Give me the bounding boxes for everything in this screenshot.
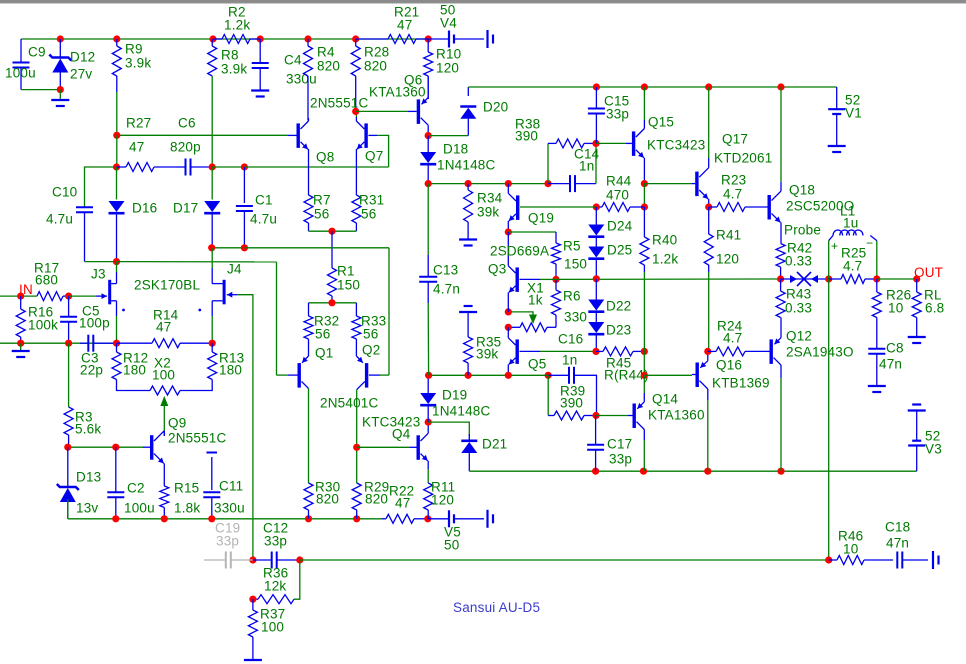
wire Q4 base — [357, 446, 410, 448]
wire to R5 — [508, 231, 556, 233]
transistor Q16 — [692, 351, 708, 471]
svg-text:D18: D18 — [443, 142, 468, 157]
svg-text:J4: J4 — [227, 262, 242, 277]
svg-text:330u: 330u — [286, 72, 317, 87]
label R13 — [219, 351, 244, 366]
value R22 — [395, 496, 410, 511]
value R45 — [604, 368, 649, 383]
resistor R36 — [253, 595, 294, 604]
svg-text:10: 10 — [843, 542, 858, 557]
wire C13 top — [427, 184, 429, 255]
label R40 — [652, 233, 677, 248]
ground V3 top — [908, 405, 926, 411]
wire R40 down — [643, 272, 645, 351]
svg-text:V4: V4 — [440, 16, 457, 31]
ground V5 — [488, 510, 494, 528]
wire out row left — [556, 278, 781, 280]
transistor Q3 — [508, 232, 540, 312]
wire D24 top — [595, 207, 597, 225]
wire R41 down — [708, 272, 710, 351]
value C17 — [609, 452, 632, 467]
junction — [64, 444, 71, 451]
label R22 — [389, 484, 414, 499]
label R45 — [606, 356, 631, 371]
value C19 — [216, 534, 239, 549]
svg-text:390: 390 — [560, 396, 583, 411]
wire R38 left — [547, 143, 549, 183]
jfet J3 — [96, 262, 117, 344]
value R8 — [221, 62, 247, 77]
label J4 — [227, 262, 242, 277]
svg-text:2SK170BL: 2SK170BL — [134, 278, 200, 293]
svg-text:KTC3423: KTC3423 — [362, 415, 420, 430]
resistor R34 — [464, 184, 473, 232]
resistor R16 — [16, 296, 25, 343]
svg-text:Q9: Q9 — [168, 416, 186, 431]
svg-text:Probe: Probe — [784, 223, 821, 238]
wire to Q6 base — [356, 110, 408, 112]
junction — [113, 163, 120, 170]
svg-text:2N5401C: 2N5401C — [320, 396, 378, 411]
svg-text:D21: D21 — [482, 437, 507, 452]
svg-text:R10: R10 — [436, 47, 461, 62]
wire Q5 base row — [540, 350, 596, 352]
junction — [57, 35, 64, 42]
label D19 — [442, 388, 467, 403]
wire R16 ground lead — [20, 343, 22, 350]
wire neg rail right — [469, 470, 916, 472]
wire X2 to R13 — [180, 380, 212, 391]
svg-text:27v: 27v — [70, 67, 92, 82]
resistor R12 — [112, 343, 121, 379]
wire D12 to ground — [59, 90, 61, 99]
battery V5 — [428, 510, 454, 527]
capacitor C11 minus mark — [207, 453, 218, 491]
svg-text:3.9k: 3.9k — [221, 62, 247, 77]
value C4 — [286, 72, 317, 87]
svg-text:1k: 1k — [528, 293, 543, 308]
capacitor C3 — [80, 335, 117, 352]
diode D21 — [461, 434, 477, 453]
junction — [592, 468, 599, 475]
resistor R7 — [304, 168, 313, 231]
svg-text:R5: R5 — [563, 239, 581, 254]
svg-text:R41: R41 — [716, 228, 741, 243]
wire C10 bottom — [85, 261, 117, 263]
svg-text:R44: R44 — [606, 174, 632, 189]
svg-text:KTA1360: KTA1360 — [648, 408, 705, 423]
svg-text:100k: 100k — [28, 318, 58, 333]
label Q6 type — [369, 85, 426, 100]
resistor R30 — [304, 483, 313, 519]
junction — [161, 515, 168, 522]
svg-text:R23: R23 — [721, 173, 746, 188]
label R29 — [364, 480, 389, 495]
value R32 — [315, 327, 330, 342]
transistor Q14 — [628, 375, 644, 471]
svg-text:680: 680 — [35, 273, 58, 288]
label Q15 type — [647, 138, 705, 153]
battery V3 — [908, 441, 925, 472]
label D23 — [606, 323, 631, 338]
junction — [705, 203, 712, 210]
wire down to Q1 base — [276, 262, 278, 375]
label V3 — [925, 429, 942, 457]
svg-text:470: 470 — [606, 188, 629, 203]
svg-text:2N5551C: 2N5551C — [310, 96, 368, 111]
wire R39 left — [547, 375, 549, 415]
resistor R2 — [213, 35, 260, 44]
svg-text:R27: R27 — [126, 116, 151, 131]
svg-text:Q17: Q17 — [722, 132, 748, 147]
svg-text:Sansui AU-D5: Sansui AU-D5 — [453, 600, 540, 615]
value L1 — [843, 216, 858, 231]
transistor Q8 — [288, 118, 309, 153]
value C12 — [264, 534, 287, 549]
junction — [704, 348, 711, 355]
wire top rail — [21, 38, 428, 40]
junction — [913, 275, 920, 282]
value C11 — [214, 501, 245, 516]
wire C14 right up — [595, 143, 597, 183]
label D18 — [443, 142, 468, 157]
resistor R14 — [117, 339, 213, 348]
junction — [65, 293, 72, 300]
resistor R9 — [112, 39, 121, 92]
label R6 — [563, 289, 581, 304]
svg-text:0.33: 0.33 — [785, 254, 812, 269]
junction — [545, 372, 552, 379]
label R41 — [716, 228, 741, 243]
svg-text:D24: D24 — [607, 219, 633, 234]
svg-text:KTA1360: KTA1360 — [369, 85, 426, 100]
value C10 — [46, 212, 73, 227]
zener D13 — [57, 447, 79, 519]
resistor R26 — [872, 279, 881, 348]
value C8 — [879, 357, 902, 372]
wire Q19 base — [520, 206, 596, 208]
wire Q15e down — [643, 184, 645, 207]
resistor R4 — [304, 39, 313, 121]
wire R34 ground lead — [467, 232, 469, 239]
value R42 — [785, 254, 812, 269]
label J3 — [91, 267, 106, 282]
value R21 — [397, 18, 412, 33]
value C5 — [79, 316, 110, 331]
svg-text:2SD669A: 2SD669A — [490, 244, 549, 259]
value C2 — [124, 501, 155, 516]
value D13 — [76, 501, 98, 516]
label R21 — [394, 5, 419, 20]
svg-text:+: + — [831, 239, 838, 253]
label C2 — [127, 481, 145, 496]
label Q12 type — [786, 345, 854, 360]
wire C9 bottom — [21, 89, 60, 91]
ground below R16 — [12, 351, 30, 357]
capacitor C17 — [587, 416, 604, 472]
diode D22 — [588, 300, 604, 312]
label C19 — [215, 521, 240, 536]
resistor R6 — [552, 279, 561, 327]
label R33 — [361, 314, 386, 329]
junction — [209, 163, 216, 170]
svg-text:47: 47 — [397, 18, 412, 33]
label C12 — [263, 521, 288, 536]
label R15 — [174, 481, 199, 496]
value R1 — [337, 278, 360, 293]
label R32 — [314, 314, 339, 329]
svg-text:56: 56 — [361, 207, 376, 222]
junction — [825, 556, 832, 563]
svg-text:Q19: Q19 — [528, 211, 554, 226]
pot X1 track — [508, 323, 547, 332]
label Q2 — [362, 343, 380, 358]
svg-text:4.7n: 4.7n — [433, 282, 460, 297]
svg-text:1n: 1n — [579, 159, 594, 174]
label Q7 — [365, 149, 383, 164]
junction — [353, 444, 360, 451]
capacitor C12 — [253, 552, 300, 569]
capacitor C4 — [252, 39, 269, 90]
label R5 — [563, 239, 581, 254]
junction — [777, 83, 784, 90]
svg-text:V3: V3 — [925, 442, 942, 457]
ground below D12 — [51, 100, 69, 106]
wire D21 bottom — [468, 453, 470, 471]
junction — [424, 515, 431, 522]
junction — [425, 372, 432, 379]
value R33 — [363, 327, 378, 342]
svg-text:47: 47 — [395, 496, 410, 511]
label R36 — [263, 566, 288, 581]
svg-text:1n: 1n — [562, 353, 577, 368]
svg-text:100u: 100u — [124, 501, 155, 516]
wire Q7 base loop — [377, 135, 389, 167]
label Q3 type — [490, 244, 549, 259]
value R46 — [843, 542, 858, 557]
label R26 — [886, 288, 911, 303]
label R46 — [838, 529, 863, 544]
svg-text:33p: 33p — [216, 534, 239, 549]
battery V1 — [828, 87, 845, 114]
junction — [328, 228, 335, 235]
svg-text:820: 820 — [316, 492, 339, 507]
value R9 — [125, 56, 151, 71]
svg-text:KTC3423: KTC3423 — [647, 138, 705, 153]
junction — [593, 203, 600, 210]
pot X2 wiper — [160, 396, 168, 436]
wire D17 C1 row — [212, 247, 245, 249]
ground V4 — [488, 30, 494, 48]
wire R3 top — [68, 343, 70, 407]
svg-text:D22: D22 — [606, 299, 631, 314]
svg-text:47n: 47n — [879, 357, 902, 372]
junction — [425, 132, 432, 139]
resistor R1 — [328, 231, 337, 303]
wire V3 mid — [916, 411, 918, 441]
svg-text:Q14: Q14 — [652, 392, 678, 407]
resistor R28 — [351, 39, 360, 111]
value R41 — [716, 252, 739, 267]
svg-text:820p: 820p — [170, 140, 201, 155]
label C14 — [574, 147, 600, 162]
resistor R27 — [117, 163, 178, 172]
svg-text:C1: C1 — [255, 193, 273, 208]
diode D17 — [204, 201, 220, 248]
resistor R3 — [64, 407, 73, 447]
wire D13 bottom — [67, 499, 69, 519]
label R38 — [515, 117, 540, 132]
wire J3 drain row — [117, 261, 277, 263]
value R44 — [606, 188, 629, 203]
wire L1 loop — [829, 241, 877, 279]
transistor Q7 — [356, 117, 377, 153]
label R17 — [34, 261, 59, 276]
capacitor C6 — [177, 159, 212, 176]
label C15 — [604, 94, 629, 109]
wire IN left — [0, 295, 37, 297]
svg-text:50: 50 — [444, 538, 459, 553]
svg-text:J3: J3 — [91, 267, 106, 282]
junction — [352, 35, 359, 42]
resistor R10 — [424, 39, 433, 99]
wire J4 gate feedback — [237, 295, 253, 560]
junction — [113, 340, 120, 347]
ground V1 — [828, 146, 846, 152]
junction — [777, 468, 784, 475]
svg-text:Q3: Q3 — [488, 262, 506, 277]
label R43 — [786, 287, 811, 302]
resistor R38 — [548, 139, 596, 148]
wire C1 top — [243, 167, 245, 203]
pot X2 track — [150, 386, 180, 395]
svg-text:C17: C17 — [607, 437, 632, 452]
resistor R5 — [552, 232, 561, 279]
diode D23 — [588, 322, 604, 351]
wire Q17 base — [644, 183, 692, 185]
resistor R43 — [776, 279, 785, 318]
label D13 — [76, 470, 101, 485]
svg-text:Q8: Q8 — [316, 150, 334, 165]
svg-text:820: 820 — [365, 492, 388, 507]
svg-text:D23: D23 — [606, 323, 631, 338]
value R30 — [316, 492, 339, 507]
wire R35 top lead — [467, 312, 469, 337]
svg-text:Q1: Q1 — [315, 346, 333, 361]
wire down to Q2 base — [388, 248, 390, 375]
junction — [241, 244, 248, 251]
transistor Q1 — [288, 356, 309, 388]
value R14 — [156, 320, 171, 335]
label R2 — [228, 5, 246, 20]
junction — [208, 515, 215, 522]
resistor R41 — [704, 207, 713, 272]
capacitor C10 — [76, 207, 93, 261]
svg-text:100: 100 — [152, 368, 175, 383]
value X1 — [528, 293, 543, 308]
junction — [593, 83, 600, 90]
label Q4 — [392, 427, 411, 442]
svg-text:R31: R31 — [359, 193, 384, 208]
resistor R37 — [248, 599, 257, 659]
junction — [305, 515, 312, 522]
svg-text:39k: 39k — [476, 347, 498, 362]
svg-text:R34: R34 — [477, 191, 503, 206]
resistor R42 — [776, 244, 785, 280]
label R12 — [123, 351, 148, 366]
svg-text:2SA1943O: 2SA1943O — [786, 345, 854, 360]
label RL — [924, 288, 942, 303]
value R16 — [28, 318, 58, 333]
capacitor C15 — [588, 87, 605, 143]
value R13 — [219, 363, 242, 378]
label V1 — [845, 93, 862, 121]
junction — [641, 83, 648, 90]
label Q16 — [716, 358, 742, 373]
label L1 — [840, 204, 855, 219]
value C15 — [606, 107, 629, 122]
label Q17 type — [714, 151, 772, 166]
svg-text:C11: C11 — [219, 479, 243, 494]
svg-text:Q15: Q15 — [648, 115, 674, 130]
svg-text:120: 120 — [436, 61, 459, 76]
svg-text:1.8k: 1.8k — [174, 501, 200, 516]
svg-text:820: 820 — [317, 59, 340, 74]
label C3 — [81, 351, 99, 366]
wire R6 bottom jog — [547, 326, 556, 328]
wire R9 down — [116, 92, 118, 135]
wire Q3 base — [540, 278, 556, 280]
label Q9 type — [168, 431, 226, 446]
transistor Q19 — [508, 184, 519, 232]
capacitor C9 — [13, 39, 30, 90]
label R14 — [153, 308, 179, 323]
resistor R23 — [709, 203, 768, 212]
svg-text:R9: R9 — [125, 42, 143, 57]
wire D22 top — [595, 279, 597, 300]
svg-text:R43: R43 — [786, 287, 811, 302]
value R36 — [264, 579, 286, 594]
svg-text:4.7u: 4.7u — [46, 212, 73, 227]
capacitor C1 — [236, 206, 253, 248]
diode D18 — [420, 136, 436, 184]
resistor R44 — [596, 203, 644, 212]
value R17 — [35, 273, 58, 288]
inductor L1 — [829, 230, 877, 253]
svg-text:100: 100 — [261, 620, 284, 635]
wire Q9 base row — [68, 446, 143, 448]
label Q1 — [315, 346, 333, 361]
value R26 — [888, 301, 903, 316]
wire Q8 base — [117, 134, 288, 136]
label C11 — [219, 479, 243, 494]
svg-text:6.8: 6.8 — [925, 301, 944, 316]
wire C13 bottom — [427, 303, 429, 375]
svg-text:33p: 33p — [609, 452, 632, 467]
svg-text:4.7: 4.7 — [843, 259, 862, 274]
wire row167 right — [244, 166, 388, 168]
label X1 — [527, 281, 544, 296]
resistor R45 — [596, 347, 644, 356]
label R34 — [477, 191, 503, 206]
window top bar — [0, 0, 966, 3]
junction — [505, 324, 512, 331]
capacitor C16 — [548, 367, 574, 384]
resistor R17 — [37, 292, 69, 301]
label IN — [19, 282, 33, 297]
wire Q2 collector — [356, 390, 358, 483]
junction — [592, 412, 599, 419]
